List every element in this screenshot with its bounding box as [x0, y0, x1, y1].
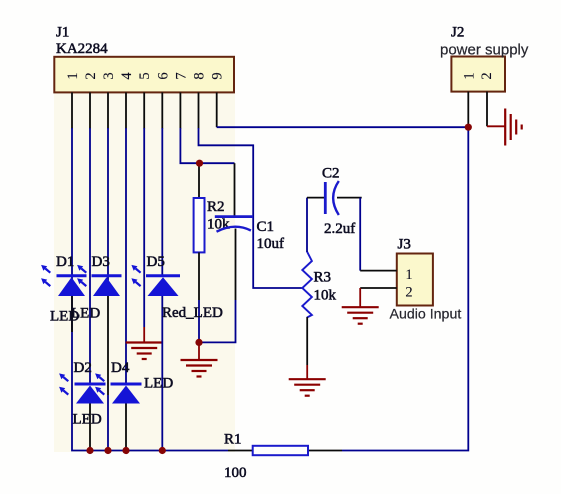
svg-text:2.2uf: 2.2uf [324, 221, 355, 237]
J2 pin 2 stub [486, 92, 488, 127]
wire D4 lower pin black [125, 403, 127, 451]
svg-text:9: 9 [210, 72, 226, 79]
ground at J3 [342, 307, 379, 324]
svg-text:D4: D4 [111, 360, 130, 376]
R2 bottom lead black [198, 252, 200, 300]
ground stem below R2 node [198, 342, 200, 359]
ground below R2 [181, 360, 218, 377]
R2 bottom lead blue [198, 300, 200, 342]
svg-text:J1: J1 [56, 25, 69, 41]
svg-text:C2: C2 [322, 166, 340, 182]
capacitor C2 straight plate [324, 182, 327, 214]
R2 top lead black [198, 164, 200, 198]
capacitor C1 bottom pin black [235, 229, 237, 301]
svg-text:power supply: power supply [440, 42, 529, 59]
svg-text:R2: R2 [207, 199, 225, 215]
J1 pin 4 stub [125, 92, 127, 128]
capacitor C1 curved plate [217, 227, 251, 232]
J2 ground stem horizontal [487, 125, 505, 127]
svg-text:10uf: 10uf [257, 236, 285, 252]
svg-text:D1: D1 [56, 254, 74, 270]
resistor R3 zigzag [302, 252, 312, 318]
J1 pin 9 stub [216, 92, 218, 127]
R3 bottom lead black [306, 317, 308, 365]
capacitor C2 right wire [337, 197, 362, 199]
wire pin9 to power rail [217, 126, 469, 128]
svg-text:LED: LED [144, 376, 173, 392]
wire pin8 down right down to R3 [199, 128, 303, 288]
wire D3 to bottom rail [107, 395, 109, 451]
svg-text:2: 2 [83, 72, 99, 79]
R3 top wire from C2 corner [306, 198, 308, 252]
wire pin3 column [107, 128, 109, 296]
J1 pin 6 stub [161, 92, 163, 128]
wire D1 lower pin black [71, 296, 73, 332]
J1 pin 1 stub [71, 92, 73, 128]
wire pin1 column and bottom rail left [72, 128, 228, 451]
svg-text:LED: LED [73, 412, 102, 428]
R1 left pin [228, 450, 253, 452]
svg-text:Audio Input: Audio Input [390, 307, 462, 323]
R3 ground stem red [306, 365, 308, 379]
LED D5 [131, 265, 180, 296]
wire pin4 column [125, 128, 127, 384]
svg-text:1: 1 [65, 72, 81, 79]
svg-text:10k: 10k [314, 288, 337, 304]
wire pin2 column [89, 128, 91, 384]
C1 bottom wire to ground node [199, 300, 236, 342]
ground stem pin5 [143, 327, 145, 342]
LED D2 [59, 373, 105, 403]
svg-text:2: 2 [405, 285, 412, 301]
connector J1 body [54, 57, 234, 93]
svg-text:100: 100 [224, 465, 247, 481]
connector J2 body [451, 57, 505, 92]
wire D3 lower pin black [107, 296, 109, 395]
resistor R1 body [253, 446, 308, 455]
svg-text:Red_LED: Red_LED [162, 305, 223, 321]
wire right rail down and bottom rail right [342, 127, 468, 450]
connector J3 body [397, 254, 433, 306]
ground below R3 [289, 379, 326, 396]
junction dot bottom rail c3 [104, 447, 111, 454]
LED D4 [95, 373, 141, 403]
wire C2 to J3 pin1 [359, 198, 361, 271]
svg-text:J2: J2 [451, 25, 464, 41]
junction dot bottom rail c6 [159, 447, 166, 454]
svg-text:1: 1 [405, 267, 412, 283]
svg-text:6: 6 [155, 72, 171, 79]
LED D3 [77, 265, 121, 296]
wire D2 lower pin black [89, 403, 91, 451]
svg-text:KA2284: KA2284 [56, 41, 108, 57]
svg-text:D2: D2 [74, 360, 92, 376]
junction dot pin7 R2 C1 node [196, 160, 203, 167]
svg-text:J3: J3 [398, 237, 411, 253]
J3 ground stem [359, 288, 361, 307]
resistor R2 body [194, 198, 205, 252]
capacitor C1 top pin black [234, 163, 236, 216]
junction dot bottom rail c4 [122, 447, 129, 454]
svg-text:4: 4 [119, 72, 135, 80]
svg-text:R3: R3 [314, 270, 332, 286]
capacitor C2 curved plate [333, 181, 339, 215]
wire D5 to bottom rail [161, 296, 163, 451]
svg-text:1: 1 [461, 72, 477, 79]
junction dot power rail J2 [465, 124, 472, 131]
junction dot bottom rail c2 [86, 447, 93, 454]
J1 pin 8 stub [198, 92, 200, 128]
LED D1 [41, 265, 86, 296]
ground at J2 rotated [505, 109, 522, 146]
J3 pin 2 lead [360, 287, 397, 289]
J1 pin 7 stub [179, 92, 181, 128]
capacitor C1 top plate [215, 215, 253, 218]
wire pin5 column to ground [143, 128, 145, 327]
svg-text:2: 2 [479, 72, 495, 79]
junction dot R2 bottom ground node [195, 339, 202, 346]
svg-text:D3: D3 [92, 254, 110, 270]
wire pin7 down and right to C1 node [180, 128, 234, 163]
ground pin5 [126, 343, 163, 360]
svg-text:5: 5 [137, 72, 153, 79]
svg-text:LED: LED [71, 306, 100, 322]
J1 pin 2 stub [89, 92, 91, 128]
capacitor C2 left wire [307, 197, 325, 199]
J1 pin 5 stub [143, 92, 145, 128]
svg-text:3: 3 [101, 72, 117, 79]
svg-text:D5: D5 [147, 254, 165, 270]
wire pin6 column [161, 128, 163, 275]
svg-text:C1: C1 [257, 219, 275, 235]
J3 pin 1 lead [360, 270, 397, 272]
J1 pin 3 stub [107, 92, 109, 128]
J2 pin 1 stub [467, 92, 469, 128]
svg-text:8: 8 [192, 72, 208, 79]
R1 right pin [308, 450, 342, 452]
svg-text:R1: R1 [224, 432, 242, 448]
svg-text:7: 7 [173, 72, 189, 79]
